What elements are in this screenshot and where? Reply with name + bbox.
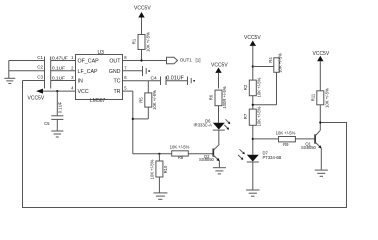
- resistor R9: [276, 131, 296, 147]
- LED D6 IR333C-A: [194, 119, 231, 145]
- port OUT: [167, 57, 201, 63]
- transistor Q2 S8050: [199, 144, 220, 167]
- svg-text:LM567: LM567: [90, 98, 106, 104]
- op-amp U3 LM567 body: [76, 50, 123, 104]
- node OUT junction: [140, 59, 142, 61]
- ground (left bus): [4, 61, 15, 84]
- power VCC5V (col2): [244, 35, 261, 81]
- svg-text:IN: IN: [78, 79, 83, 85]
- svg-text:VCC5V: VCC5V: [244, 35, 261, 41]
- svg-text:VCC5V: VCC5V: [134, 6, 151, 12]
- svg-text:[1]: [1]: [196, 58, 201, 63]
- resistor R5: [133, 81, 157, 119]
- power VCC5V (middle, R6): [211, 63, 228, 89]
- svg-text:C5: C5: [44, 121, 50, 126]
- resistor R11: [310, 88, 329, 130]
- resistor R10: [149, 154, 168, 193]
- ground (R10): [153, 193, 167, 199]
- wire (C3 left loop down + bottom rail + right riser): [23, 81, 347, 208]
- capacitor C3: [23, 75, 66, 82]
- svg-text:TC: TC: [113, 79, 120, 85]
- svg-text:C4: C4: [151, 75, 157, 81]
- svg-text:R5: R5: [138, 97, 143, 103]
- pin 8 OUT: [109, 55, 166, 64]
- wire (base row to Q2): [133, 153, 213, 155]
- node R10 tap: [158, 153, 160, 155]
- svg-text:0.1UF: 0.1UF: [52, 66, 65, 72]
- svg-text:PT334-6B: PT334-6B: [263, 155, 282, 160]
- svg-text:R6: R6: [209, 94, 214, 100]
- svg-text:10K +/-5%: 10K +/-5%: [152, 90, 157, 110]
- node R4 top branch: [252, 65, 254, 67]
- resistor R7: [243, 106, 261, 154]
- svg-text:C1: C1: [37, 55, 43, 60]
- svg-text:TR: TR: [113, 89, 120, 95]
- svg-text:R7: R7: [243, 113, 248, 119]
- resistor R1: [131, 32, 150, 61]
- svg-text:LF_CAP: LF_CAP: [78, 69, 98, 75]
- svg-text:C3: C3: [37, 75, 43, 80]
- svg-text:0.1UF: 0.1UF: [52, 75, 65, 81]
- transistor Q1 S8050: [301, 130, 322, 169]
- node R9 tap: [252, 138, 254, 140]
- node TR/R5 junction: [132, 118, 134, 120]
- svg-text:C2: C2: [37, 65, 43, 70]
- ground (Q1 emitter): [315, 170, 328, 176]
- capacitor (GND pin bypass): [143, 66, 150, 76]
- pin 6 TC: [113, 75, 160, 84]
- wire (TR down): [132, 91, 134, 154]
- photodiode D7 PT334-6B: [238, 149, 282, 189]
- svg-text:R11: R11: [310, 93, 315, 101]
- svg-text:10K +/-5%: 10K +/-5%: [256, 77, 261, 97]
- capacitor plates C1 C2 C3: [45, 57, 51, 89]
- ground (D7): [246, 190, 259, 196]
- node collector junction: [319, 121, 321, 123]
- svg-text:100R +/-5%: 100R +/-5%: [222, 86, 227, 109]
- svg-text:VCC5V: VCC5V: [211, 63, 228, 69]
- node C5 tap junction: [56, 90, 58, 92]
- capacitor (series, TC): [188, 77, 195, 86]
- svg-text:OUT: OUT: [109, 59, 121, 65]
- svg-text:R9: R9: [283, 142, 289, 147]
- svg-text:10K +/-5%: 10K +/-5%: [256, 106, 261, 126]
- svg-text:IR333C-A: IR333C-A: [194, 123, 213, 128]
- svg-text:R10: R10: [163, 165, 168, 173]
- capacitor C4: [151, 75, 188, 85]
- svg-text:VCC5V: VCC5V: [28, 96, 45, 102]
- pin 5 TR: [113, 86, 132, 95]
- capacitor C5: [44, 91, 63, 130]
- svg-text:SS8050: SS8050: [199, 157, 215, 162]
- svg-text:R2: R2: [243, 84, 248, 90]
- ground (C5): [51, 131, 63, 137]
- svg-text:VCC5V: VCC5V: [313, 51, 330, 57]
- svg-text:0.1UF: 0.1UF: [57, 101, 62, 113]
- resistor R6: [209, 86, 228, 123]
- svg-text:0.47UF: 0.47UF: [52, 56, 68, 62]
- pin 2 LF_CAP: [51, 65, 98, 74]
- wire (to R4 top): [253, 66, 274, 68]
- svg-text:10K +/-5%: 10K +/-5%: [324, 88, 329, 108]
- wire (R4 bottom branch): [253, 104, 277, 106]
- resistor R4: [268, 53, 283, 105]
- svg-text:10K +/-5%: 10K +/-5%: [278, 53, 283, 73]
- svg-text:10K +/-5%: 10K +/-5%: [170, 145, 190, 150]
- svg-text:U3: U3: [98, 50, 105, 56]
- svg-text:SS8050: SS8050: [301, 145, 317, 150]
- resistor R2: [243, 77, 261, 109]
- svg-text:R8: R8: [178, 155, 184, 160]
- power VCC5V (top, R1): [134, 6, 151, 35]
- node R4 bottom: [252, 104, 254, 106]
- power VCC5V (left arrow, pin4): [28, 89, 45, 102]
- svg-text:10K +/-5%: 10K +/-5%: [146, 32, 151, 52]
- svg-text:10K +/-5%: 10K +/-5%: [149, 159, 154, 179]
- svg-text:R1: R1: [131, 38, 136, 44]
- svg-text:0.01UF: 0.01UF: [166, 75, 184, 81]
- svg-text:GND: GND: [109, 69, 121, 75]
- svg-text:OUT1: OUT1: [180, 58, 192, 63]
- pin 1 OF_CAP: [51, 55, 99, 64]
- pin 7 GND: [109, 65, 143, 74]
- ground (Q2 emitter): [213, 168, 226, 174]
- svg-text:10K +/-5%: 10K +/-5%: [276, 131, 296, 136]
- resistor R8: [170, 145, 190, 161]
- capacitor C2: [9, 65, 65, 72]
- wire (R9 row): [253, 138, 315, 140]
- power VCC5V (right, R11): [313, 51, 330, 91]
- svg-text:OF_CAP: OF_CAP: [78, 59, 100, 65]
- pin 3 IN: [51, 75, 83, 84]
- svg-text:VCC: VCC: [78, 89, 89, 95]
- svg-text:R4: R4: [268, 57, 273, 63]
- pin 4 VCC: [43, 86, 89, 95]
- capacitor C1: [9, 55, 68, 62]
